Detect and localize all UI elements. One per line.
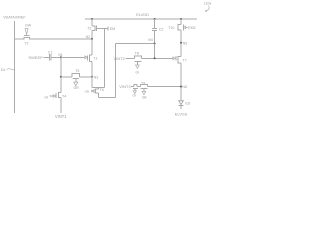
wire ELVDD to T10 bbox=[180, 19, 182, 25]
junction N4 row bbox=[154, 57, 156, 59]
wire N1 to T5 bbox=[61, 76, 72, 78]
svg-text:T5: T5 bbox=[75, 69, 79, 73]
wire ELVDD to T3 bbox=[91, 19, 93, 26]
svg-text:T1: T1 bbox=[93, 57, 97, 61]
svg-text:T7: T7 bbox=[182, 59, 186, 63]
svg-text:DL: DL bbox=[1, 67, 7, 72]
transistor T4 bbox=[49, 93, 66, 99]
transistor T7 bbox=[173, 56, 187, 63]
svg-text:GR: GR bbox=[74, 86, 80, 90]
junction ELVDD / C2 column bbox=[154, 18, 156, 20]
svg-text:T4: T4 bbox=[62, 94, 66, 98]
svg-text:T3: T3 bbox=[87, 27, 91, 31]
wire N2 to T1 bbox=[91, 39, 93, 55]
wire T10 to T7 bbox=[180, 30, 182, 56]
OLED ED bbox=[179, 101, 191, 109]
svg-text:N4: N4 bbox=[148, 38, 153, 42]
transistor T9 bbox=[140, 81, 147, 99]
svg-text:C1: C1 bbox=[48, 50, 53, 54]
wire T9 to N6 bbox=[147, 86, 181, 88]
wire VINT2 to T8 bbox=[126, 57, 135, 59]
svg-text:VINT2: VINT2 bbox=[113, 56, 125, 61]
junction N1 line / T5 row bbox=[60, 76, 62, 78]
svg-text:VINT3: VINT3 bbox=[119, 84, 131, 89]
transistor (VINT3 row left) bbox=[132, 84, 137, 97]
transistor T10 bbox=[168, 24, 187, 30]
wire T6 to N4 bbox=[98, 44, 154, 98]
wire data line DL vertical bbox=[13, 21, 15, 113]
svg-text:ELVSS: ELVSS bbox=[175, 111, 188, 116]
wire between VINT3 transistors bbox=[137, 86, 140, 88]
wire N1 vertical down bbox=[60, 57, 62, 113]
wire C2 to N4 bbox=[154, 31, 156, 44]
wire T3 gate down to T6 bbox=[104, 28, 106, 87]
svg-text:SWEEP: SWEEP bbox=[28, 55, 43, 60]
svg-text:GB: GB bbox=[142, 95, 148, 99]
transistor T5 bbox=[72, 69, 80, 86]
svg-text:GI: GI bbox=[44, 96, 48, 100]
svg-text:N3: N3 bbox=[94, 75, 99, 79]
wire T5 to N3 bbox=[80, 76, 92, 78]
svg-text:GI: GI bbox=[132, 93, 136, 97]
transistor T3 bbox=[87, 26, 107, 31]
node N4 bbox=[148, 38, 155, 44]
node N1 bbox=[58, 53, 63, 58]
wire T7 to N6 bbox=[180, 63, 182, 101]
svg-text:VDATA/VREF: VDATA/VREF bbox=[3, 16, 26, 20]
wire VDATA line to T2 bbox=[14, 38, 23, 40]
node N6 bbox=[180, 85, 187, 89]
capacitor C1 bbox=[48, 50, 53, 60]
svg-text:ED: ED bbox=[185, 102, 190, 106]
svg-text:N2: N2 bbox=[86, 35, 91, 39]
transistor T8 bbox=[134, 52, 141, 75]
svg-text:T10: T10 bbox=[168, 26, 174, 30]
junction ELVDD / T10 column bbox=[180, 18, 182, 20]
svg-text:T8: T8 bbox=[135, 52, 139, 56]
svg-text:T2: T2 bbox=[24, 41, 28, 45]
reference label 110a with leader arrow bbox=[204, 2, 212, 12]
svg-text:VINT1: VINT1 bbox=[55, 114, 67, 119]
wire SWEEP to C1 bbox=[44, 56, 50, 58]
svg-text:N6: N6 bbox=[182, 85, 187, 89]
transistor T2 bbox=[24, 29, 30, 46]
svg-text:GW: GW bbox=[25, 23, 32, 27]
transistor T1 bbox=[85, 55, 98, 61]
svg-text:GI: GI bbox=[135, 71, 139, 75]
node N2 bbox=[86, 35, 93, 40]
svg-text:T9: T9 bbox=[141, 81, 145, 85]
svg-text:EM: EM bbox=[110, 27, 115, 31]
wire N4 to T8 row bbox=[154, 44, 156, 59]
svg-text:C2: C2 bbox=[159, 28, 164, 32]
svg-text:ELVDD: ELVDD bbox=[136, 12, 149, 17]
svg-text:GB: GB bbox=[85, 89, 89, 93]
node N5 bbox=[180, 41, 187, 45]
wire VINT3 to left transistor bbox=[131, 86, 134, 88]
wire N3 column to T6 bbox=[92, 77, 105, 88]
svg-text:N1: N1 bbox=[58, 53, 63, 57]
junction ELVDD / T3 column bbox=[91, 18, 93, 20]
svg-text:N5: N5 bbox=[183, 41, 188, 45]
node label DL with squiggle leader bbox=[1, 67, 14, 72]
wire T8 to T7 gate bbox=[141, 57, 173, 59]
wire C1 to N1 bbox=[51, 56, 61, 58]
capacitor C2 bbox=[152, 28, 163, 32]
svg-text:EM2: EM2 bbox=[188, 26, 195, 30]
gate signal EM tag bbox=[108, 27, 115, 31]
wire T2 to N2 bbox=[29, 38, 92, 40]
svg-text:110a: 110a bbox=[204, 2, 212, 6]
wire N1 to T1 gate bbox=[61, 56, 85, 58]
svg-text:T6: T6 bbox=[100, 88, 104, 92]
wire T1 to N3 bbox=[91, 61, 93, 76]
node N3 bbox=[91, 75, 98, 79]
transistor T6 bbox=[85, 88, 104, 98]
wire T3 to N2 bbox=[91, 31, 93, 39]
wire ELVDD to C2 bbox=[154, 19, 156, 29]
rail ELVDD bbox=[85, 18, 197, 20]
